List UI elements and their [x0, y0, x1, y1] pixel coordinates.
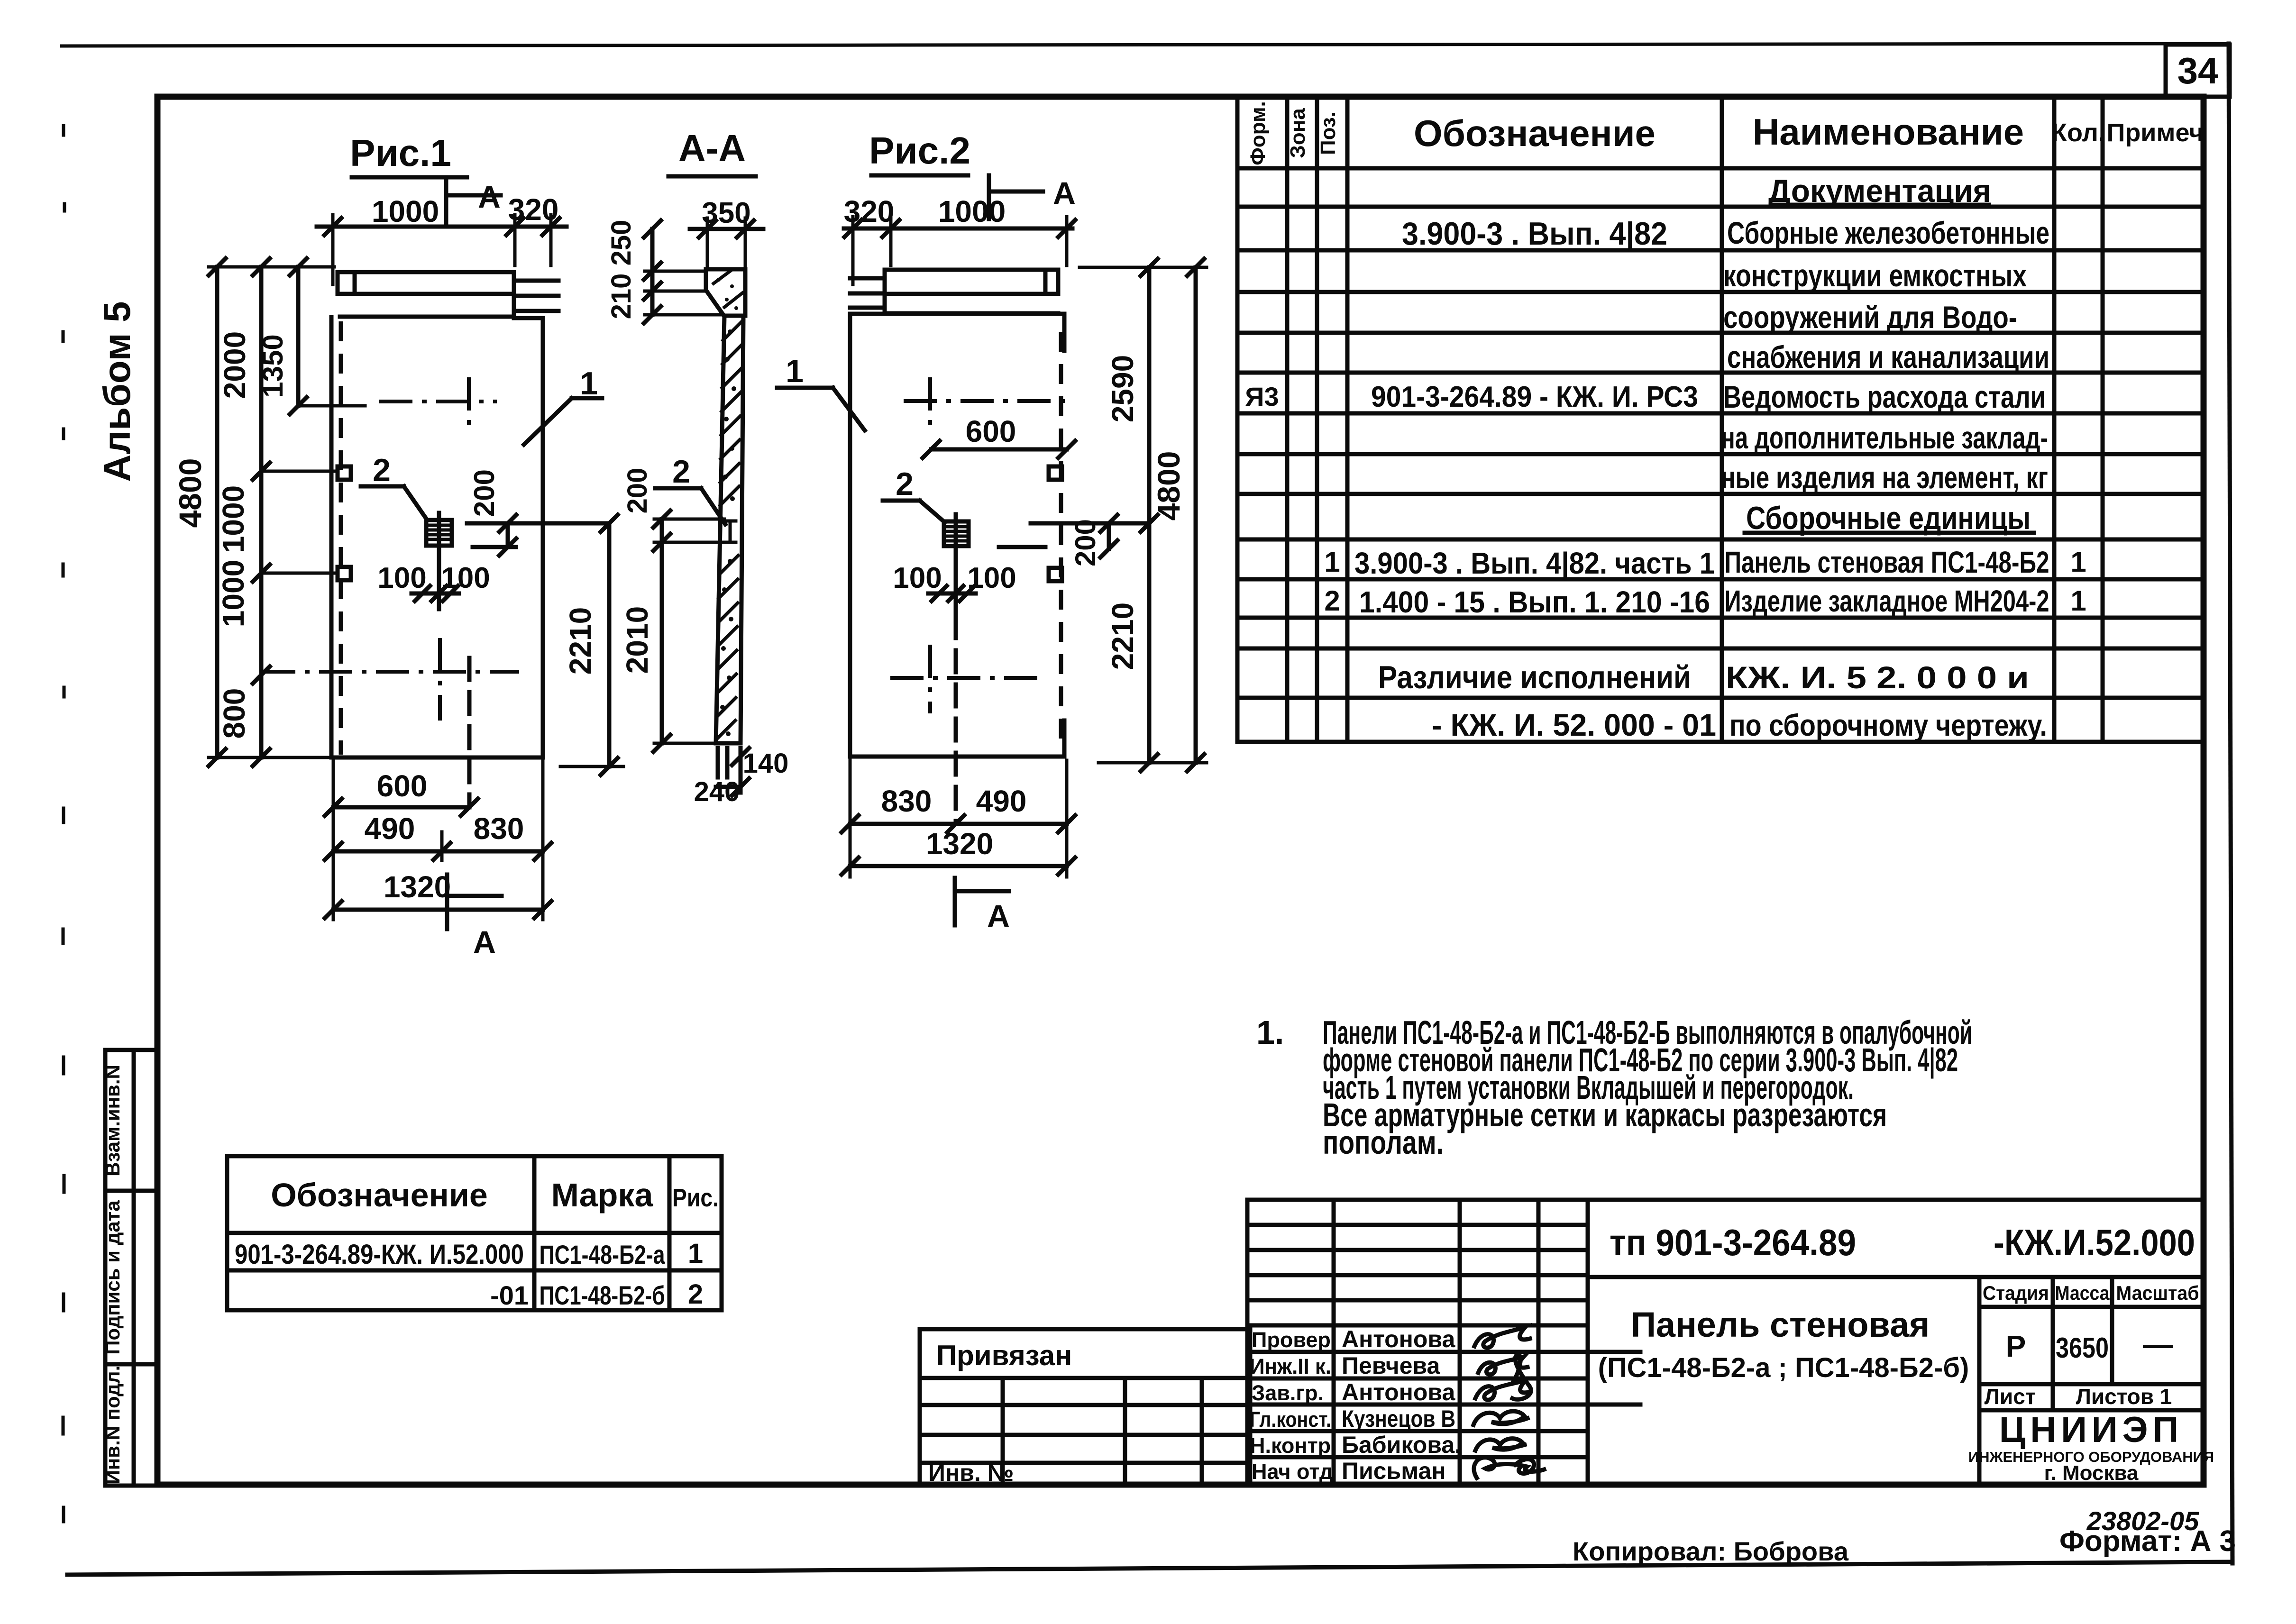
svg-text:на дополнительные заклад-: на дополнительные заклад- [1721, 420, 2048, 455]
svg-text:Рис.1: Рис.1 [350, 132, 451, 174]
svg-text:2: 2 [1324, 585, 1340, 617]
svg-text:100: 100 [967, 562, 1016, 594]
mark table row line [227, 1268, 722, 1273]
stamp box Взам.инв.N [105, 1050, 157, 1191]
fig2 item reference line long [1031, 521, 1145, 526]
page number box [2166, 45, 2230, 97]
fig2 top extension lines [853, 217, 1067, 284]
dim 600 (fig1 bottom) [325, 799, 478, 816]
svg-text:Альбом 5: Альбом 5 [96, 301, 138, 482]
svg-text:Поз.: Поз. [1317, 111, 1340, 155]
dim line 1350 [290, 258, 307, 414]
svg-text:1: 1 [2070, 546, 2086, 578]
svg-text:100: 100 [893, 562, 942, 594]
section mark A top (fig1) [446, 179, 501, 223]
designation cell line [1588, 1275, 2204, 1279]
svg-text:Взам.инв.N: Взам.инв.N [101, 1065, 124, 1177]
fig2 panel body outline [850, 314, 1064, 757]
svg-text:1000: 1000 [216, 485, 250, 553]
dim 2010 line (section) [653, 542, 670, 752]
svg-text:Панель стеновая ПС1-48-Б2: Панель стеновая ПС1-48-Б2 [1725, 545, 2049, 579]
svg-text:Лист: Лист [1985, 1384, 2036, 1409]
svg-text:Подпись и дата: Подпись и дата [101, 1200, 124, 1355]
fig2 bottom extension lines [850, 760, 1067, 877]
dim 830-490 (fig2 bottom) [842, 815, 1075, 832]
svg-text:А-А: А-А [678, 127, 746, 169]
fig2 reference line short [999, 545, 1045, 549]
leader 1 (fig2) [777, 388, 865, 430]
fig1 keyway notch lower [338, 567, 351, 580]
signature squiggles [1473, 1327, 1544, 1478]
svg-text:-01: -01 [490, 1280, 529, 1310]
fig1 top dim ticks [324, 218, 559, 235]
left margin tick marks [63, 126, 64, 1522]
svg-text:1: 1 [786, 353, 804, 389]
section head hatch [713, 271, 742, 307]
fig1 top band outline [338, 272, 514, 317]
title block top line [1247, 1198, 2204, 1202]
left extension grid [920, 1378, 1250, 1484]
fig2 top band outline [885, 270, 1058, 314]
svg-text:140: 140 [743, 748, 789, 779]
fig2 item line vertical lower [954, 616, 958, 821]
svg-text:100: 100 [441, 562, 490, 594]
leader 2 (section) [655, 488, 725, 524]
section strip concrete dots [720, 329, 736, 736]
signature grid empty rows [1247, 1225, 1588, 1325]
svg-text:800: 800 [217, 688, 251, 739]
svg-text:Зав.гр.: Зав.гр. [1252, 1381, 1324, 1405]
leader 2 (fig2) [883, 501, 945, 522]
svg-text:490: 490 [976, 784, 1027, 818]
svg-text:конструкции емкостных: конструкции емкостных [1723, 258, 2027, 293]
svg-text:1320: 1320 [384, 870, 451, 904]
section mark A bottom (fig2) [955, 878, 1009, 925]
fig2 top dimension line [844, 227, 1072, 231]
svg-text:Бабикова.: Бабикова. [1342, 1432, 1461, 1458]
fig1 top dimension line [317, 225, 567, 229]
fig1 lower centerline cross [438, 638, 442, 721]
fig1 top extension lines [333, 215, 551, 284]
dim 200 vertical (fig2) [1100, 515, 1117, 557]
svg-text:600: 600 [377, 769, 428, 803]
svg-text:Рис.: Рис. [672, 1184, 719, 1212]
svg-text:320: 320 [508, 192, 559, 227]
svg-text:Стадия: Стадия [1983, 1282, 2049, 1304]
stamp box Подпись и дата [105, 1191, 157, 1364]
section strip hatch [716, 321, 742, 739]
stamp divider line [132, 1050, 136, 1486]
fig1 lower centerline [262, 670, 519, 674]
fig2 lower centerline [890, 676, 1047, 680]
left vertical stamp boxes [105, 1050, 157, 1486]
dim 2210 line (fig2) [1141, 523, 1158, 771]
embedded item 2 (fig1) [426, 520, 452, 546]
svg-text:—: — [2143, 1327, 2173, 1361]
svg-text:по сборочному чертежу.: по сборочному чертежу. [1729, 708, 2047, 742]
svg-text:г. Москва: г. Москва [2044, 1461, 2139, 1485]
svg-text:А: А [478, 179, 501, 214]
svg-text:4800: 4800 [1151, 451, 1186, 521]
svg-text:Копировал: Боброва: Копировал: Боброва [1573, 1536, 1849, 1566]
signature labels [1250, 1328, 1337, 1484]
table header separator [1237, 166, 2204, 171]
svg-text:Сборные железобетонные: Сборные железобетонные [1727, 215, 2049, 250]
signature names [1342, 1326, 1461, 1484]
svg-text:А: А [1053, 175, 1076, 210]
fig1 item reference line long [467, 521, 609, 526]
table row lines [1237, 207, 2204, 698]
svg-text:2590: 2590 [1106, 355, 1140, 422]
svg-text:Форм.: Форм. [1246, 101, 1270, 165]
svg-text:320: 320 [844, 194, 895, 228]
underline Сборочные единицы [1745, 531, 2034, 535]
svg-text:Наименование: Наименование [1753, 111, 2024, 153]
Рис.2 title underline [871, 173, 968, 178]
svg-text:1.400 - 15 . Вып. 1. 210 -16: 1.400 - 15 . Вып. 1. 210 -16 [1359, 585, 1710, 619]
dim 250-210 ticks [644, 220, 661, 323]
svg-text:1320: 1320 [926, 827, 993, 861]
svg-text:Инв. №: Инв. № [928, 1460, 1014, 1486]
svg-text:Я3: Я3 [1245, 382, 1279, 411]
stadia strip outline [1979, 1277, 2204, 1484]
fig2 item centerline vertical [954, 514, 958, 616]
svg-text:Обозначение: Обозначение [1414, 112, 1656, 154]
signature filled row lines [1247, 1352, 1640, 1457]
svg-text:2: 2 [672, 454, 690, 490]
fig1 bottom extension lines [333, 761, 543, 920]
svg-text:пополам.: пополам. [1323, 1124, 1444, 1161]
dim 490-830 (fig1 bottom) [325, 843, 551, 860]
dim 200 vertical (fig1) [499, 515, 516, 556]
outer top border line [62, 44, 2228, 46]
svg-text:А: А [987, 898, 1010, 933]
mark table header line [227, 1231, 722, 1235]
svg-text:Кол.: Кол. [2051, 119, 2105, 147]
section bottom extension line [654, 742, 717, 745]
svg-text:1000: 1000 [938, 194, 1006, 228]
svg-text:Р: Р [2006, 1329, 2026, 1363]
signature grid verticals [1247, 1200, 1588, 1484]
svg-text:Привязан: Привязан [936, 1340, 1072, 1371]
svg-text:830: 830 [474, 812, 524, 846]
section extension lines top [707, 218, 745, 265]
fig2 upper centerline [904, 399, 1067, 403]
svg-text:2210: 2210 [563, 607, 597, 675]
Рис.1 title underline [352, 175, 467, 180]
embedded item mark (section) [724, 521, 736, 542]
svg-text:2: 2 [373, 452, 391, 488]
svg-text:240: 240 [694, 776, 740, 807]
svg-text:830: 830 [881, 784, 932, 818]
fig2 top dim ticks [844, 220, 1075, 237]
table outline verticals [1237, 98, 2103, 742]
dim 250-210 reference lines (section top left) [645, 271, 723, 315]
dim 100-100 (fig2) [928, 586, 976, 601]
svg-text:(ПС1-48-Б2-а ; ПС1-48-Б2-б): (ПС1-48-Б2-а ; ПС1-48-Б2-б) [1598, 1352, 1969, 1383]
svg-text:250: 250 [606, 220, 637, 266]
svg-text:Панель стеновая: Панель стеновая [1631, 1305, 1930, 1344]
fig1 upper centerline [379, 400, 497, 403]
fig2 rebar bars [850, 278, 885, 308]
svg-text:200: 200 [468, 469, 500, 517]
svg-text:Провер.: Провер. [1252, 1328, 1336, 1352]
fig1 bottom connector for 2210 [560, 765, 623, 768]
svg-text:1.: 1. [1256, 1014, 1284, 1051]
fig1 item line vertical [467, 658, 472, 806]
svg-text:Различие исполнений: Различие исполнений [1378, 659, 1691, 695]
svg-text:200: 200 [622, 468, 653, 514]
underline Документация [1771, 203, 1989, 207]
svg-text:-КЖ.И.52.000: -КЖ.И.52.000 [1994, 1222, 2195, 1263]
section mark A top (fig2) [989, 175, 1043, 219]
dim 200 ticks (section) [653, 511, 670, 551]
svg-text:Обозначение: Обозначение [271, 1177, 488, 1213]
section mark A bottom (fig1) [447, 875, 502, 929]
svg-text:А: А [473, 924, 496, 959]
section head concrete dots [717, 278, 738, 310]
svg-text:КЖ. И. 5 2. 0 0 0 и: КЖ. И. 5 2. 0 0 0 и [1726, 660, 2029, 695]
svg-text:2010: 2010 [620, 606, 654, 674]
dim 4800 line (fig2) [1187, 259, 1204, 771]
svg-text:Н.контр.: Н.контр. [1250, 1433, 1337, 1458]
fig1 hidden edge dashed line [339, 321, 343, 755]
chain dim line (fig1 left) [253, 258, 270, 766]
fig1 panel body outline [331, 317, 543, 757]
svg-text:тп 901-3-264.89: тп 901-3-264.89 [1610, 1222, 1856, 1263]
svg-text:200: 200 [1070, 519, 1101, 566]
svg-text:2: 2 [896, 466, 914, 502]
svg-text:901-3-264.89-КЖ. И.52.000: 901-3-264.89-КЖ. И.52.000 [235, 1239, 524, 1270]
svg-text:Марка: Марка [551, 1177, 654, 1213]
dim 350 (section top) [690, 220, 763, 237]
svg-text:Формат: А 3: Формат: А 3 [2059, 1525, 2236, 1558]
fig1 left extension lines [209, 267, 365, 757]
dim 2590 line (fig2) [1141, 259, 1158, 532]
svg-text:600: 600 [966, 414, 1016, 448]
svg-text:Ведомость расхода стали: Ведомость расхода стали [1723, 379, 2046, 414]
svg-text:снабжения и канализации: снабжения и канализации [1727, 339, 2049, 374]
dim 1320 (fig2 bottom) [842, 858, 1075, 875]
svg-text:Антонова: Антонова [1342, 1379, 1455, 1405]
outer bottom border line [67, 1562, 2232, 1575]
svg-text:100: 100 [377, 562, 426, 594]
svg-text:Инж.II к.: Инж.II к. [1250, 1354, 1331, 1378]
title block left extension outline [920, 1329, 1250, 1484]
section top head (trapezoid) [706, 269, 745, 316]
svg-text:Нач отд: Нач отд [1252, 1460, 1333, 1484]
fig2 hidden edge dashed line [1059, 332, 1063, 739]
svg-text:Певчева: Певчева [1342, 1352, 1440, 1379]
section wall strip [716, 316, 743, 743]
dim 1320 (fig1 bottom) [325, 901, 551, 918]
dim 100-100 (fig1) [412, 586, 459, 601]
svg-text:Инв.N подл.: Инв.N подл. [101, 1366, 124, 1485]
svg-text:сооружений для Водо-: сооружений для Водо- [1723, 300, 2017, 335]
embedded item 2 (fig2) [944, 521, 969, 546]
dim 200 reference lines (section) [654, 519, 724, 542]
mark table outline [227, 1156, 722, 1310]
svg-text:Антонова: Антонова [1342, 1326, 1455, 1352]
fig2 lower centerline cross [928, 645, 932, 713]
svg-text:Изделие закладное МН204-2: Изделие закладное МН204-2 [1725, 584, 2049, 618]
svg-text:4800: 4800 [173, 458, 208, 528]
leader 1 (fig1) [524, 398, 602, 445]
dim 2210 line (fig1) [601, 515, 618, 775]
svg-text:3650: 3650 [2056, 1332, 2109, 1364]
svg-text:2000: 2000 [218, 331, 252, 399]
fig2 right connectors [1079, 267, 1207, 763]
svg-text:1: 1 [580, 365, 598, 401]
leader 2 (fig1) [361, 486, 427, 520]
svg-text:ПС1-48-Б2-б: ПС1-48-Б2-б [540, 1280, 665, 1310]
fig1 rebar bars [514, 281, 558, 311]
svg-text:2210: 2210 [1106, 602, 1140, 670]
svg-text:1000: 1000 [216, 560, 250, 627]
fig2 keyway notch upper [1049, 466, 1062, 480]
svg-text:- КЖ. И. 52. 000 - 01: - КЖ. И. 52. 000 - 01 [1432, 707, 1716, 742]
svg-text:Рис.2: Рис.2 [869, 129, 970, 172]
table bottom line [1237, 740, 2204, 744]
svg-text:Масштаб: Масштаб [2116, 1282, 2199, 1304]
svg-text:34: 34 [2177, 50, 2219, 91]
svg-text:1: 1 [688, 1238, 703, 1269]
svg-text:ные изделия на элемент, кг: ные изделия на элемент, кг [1721, 460, 2048, 495]
dim 600 (fig2 middle) [923, 441, 1075, 458]
dim line 4800 (fig1) [209, 258, 226, 766]
svg-text:3.900-3 . Вып. 4|82: 3.900-3 . Вып. 4|82 [1402, 216, 1667, 252]
fig2 keyway notch lower [1049, 568, 1062, 581]
svg-text:1: 1 [2070, 585, 2086, 617]
fig1 reference line short [473, 545, 516, 549]
mark table column lines [534, 1156, 669, 1310]
inner drawing frame [157, 97, 2204, 1485]
fig1 upper centerline cross [467, 377, 471, 426]
svg-text:1: 1 [1324, 546, 1340, 578]
svg-text:350: 350 [702, 197, 750, 229]
svg-text:ПС1-48-Б2-а: ПС1-48-Б2-а [540, 1240, 666, 1269]
section bottom dim marks [716, 748, 749, 795]
svg-text:ЦНИИЭП: ЦНИИЭП [1999, 1410, 2183, 1450]
stamp box Инв.N подл. [105, 1364, 157, 1486]
fig1 keyway notch upper [338, 466, 351, 480]
svg-text:1000: 1000 [372, 194, 439, 228]
svg-text:490: 490 [365, 812, 415, 846]
svg-text:2: 2 [688, 1279, 703, 1310]
svg-text:Письман: Письман [1342, 1458, 1446, 1484]
svg-text:3.900-3 . Вып. 4|82. часть 1: 3.900-3 . Вып. 4|82. часть 1 [1354, 546, 1715, 581]
svg-text:901-3-264.89 - КЖ. И. РС3: 901-3-264.89 - КЖ. И. РС3 [1371, 381, 1698, 413]
svg-text:Зона: Зона [1286, 108, 1309, 158]
svg-text:1350: 1350 [257, 334, 289, 397]
outer right border line [2229, 44, 2232, 1563]
fig2 upper centerline cross [928, 377, 932, 426]
svg-text:210: 210 [606, 274, 637, 319]
svg-text:Гл.конст.: Гл.конст. [1250, 1407, 1331, 1432]
svg-text:Примеч: Примеч [2107, 119, 2204, 147]
fig1 item centerline vertical [437, 513, 441, 609]
А-А title underline [668, 174, 756, 179]
svg-text:Кузнецов В: Кузнецов В [1342, 1405, 1455, 1432]
svg-text:Масса: Масса [2055, 1282, 2110, 1304]
svg-text:Листов 1: Листов 1 [2076, 1384, 2172, 1409]
